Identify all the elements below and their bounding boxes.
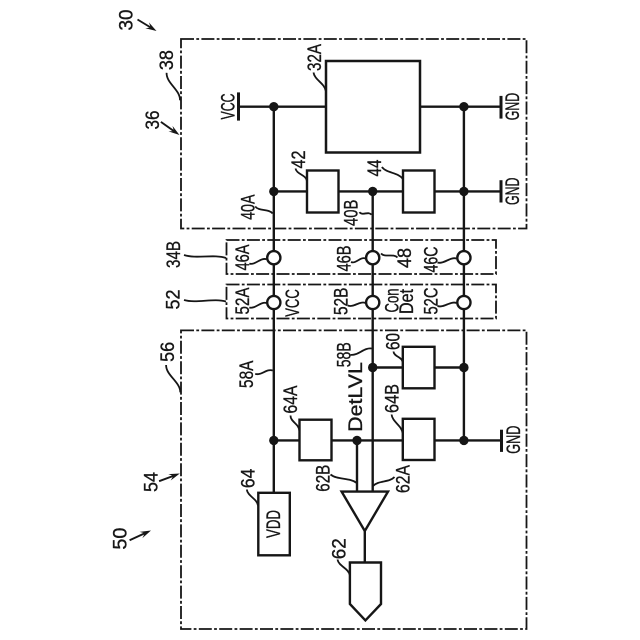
svg-text:52A: 52A	[232, 288, 254, 315]
svg-text:44: 44	[364, 159, 386, 176]
svg-text:GND: GND	[502, 93, 524, 121]
svg-text:52B: 52B	[330, 288, 352, 316]
svg-text:46A: 46A	[232, 245, 254, 271]
svg-text:60: 60	[383, 333, 405, 350]
svg-text:62B: 62B	[313, 465, 335, 492]
svg-text:46C: 46C	[420, 247, 442, 273]
svg-text:42: 42	[288, 151, 310, 169]
svg-text:40A: 40A	[237, 195, 259, 220]
svg-text:46B: 46B	[333, 246, 355, 272]
svg-text:52C: 52C	[420, 288, 442, 315]
svg-text:VDD: VDD	[263, 510, 285, 538]
svg-text:40B: 40B	[340, 200, 362, 226]
svg-text:64A: 64A	[280, 386, 302, 414]
svg-text:VCC: VCC	[282, 289, 304, 317]
svg-text:GND: GND	[503, 426, 525, 454]
svg-text:GND: GND	[502, 178, 524, 206]
svg-text:Det: Det	[396, 289, 418, 314]
svg-text:32A: 32A	[304, 44, 326, 71]
svg-text:48: 48	[394, 248, 416, 268]
svg-text:64: 64	[238, 469, 260, 489]
svg-text:DetLVL: DetLVL	[345, 362, 367, 432]
svg-text:56: 56	[157, 342, 179, 362]
svg-text:62: 62	[328, 538, 350, 559]
svg-text:62A: 62A	[393, 465, 415, 493]
svg-text:52: 52	[163, 290, 185, 310]
svg-text:64B: 64B	[382, 384, 404, 413]
svg-text:38: 38	[156, 50, 178, 70]
svg-text:50: 50	[109, 527, 131, 549]
svg-text:30: 30	[116, 9, 138, 30]
svg-text:36: 36	[142, 111, 164, 130]
svg-text:58A: 58A	[236, 361, 258, 388]
svg-text:54: 54	[141, 472, 163, 492]
svg-text:34B: 34B	[163, 241, 185, 268]
svg-text:VCC: VCC	[218, 94, 240, 120]
